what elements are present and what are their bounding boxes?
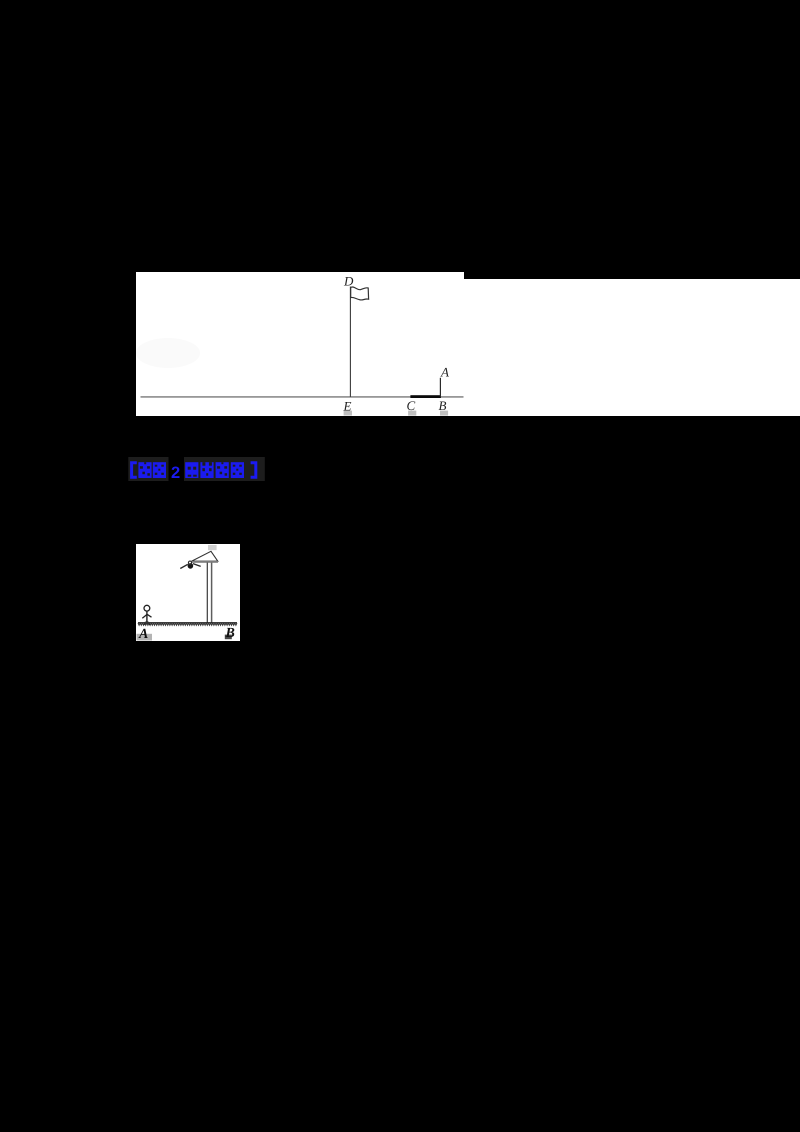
dark bar under B — [225, 634, 232, 639]
svg-text:A: A — [138, 627, 148, 642]
ground line through E C B — [141, 396, 464, 398]
svg-text:D: D — [343, 274, 354, 289]
blue heading 【变式2 中心投影】 — [128, 456, 268, 484]
figure 2: street lamp and person (central projection) — [136, 544, 240, 642]
svg-text:2: 2 — [171, 464, 180, 482]
bulb — [188, 563, 194, 569]
flag at D — [351, 287, 369, 300]
lamp base bar — [191, 561, 218, 563]
gray handle top — [208, 545, 217, 550]
flagpole DE — [349, 287, 351, 397]
stick person — [144, 605, 150, 611]
rays left/right — [180, 564, 188, 568]
ground line AB — [138, 621, 237, 623]
gray marks under E C B — [344, 411, 352, 416]
lamp head triangle — [192, 551, 218, 561]
faint watermark smudge — [136, 338, 200, 368]
white highlight band right of figure 1 — [464, 279, 800, 416]
figure 1: flagpole / mirror reflection diagram — [136, 272, 464, 416]
lamp pole (double line) — [206, 562, 208, 622]
pole AB — [439, 378, 441, 397]
svg-text:A: A — [440, 365, 449, 380]
sawtooth hatching — [138, 623, 237, 625]
gray bar under A — [137, 633, 153, 640]
svg-text:B: B — [225, 626, 235, 641]
mirror CB thick segment — [410, 395, 441, 398]
